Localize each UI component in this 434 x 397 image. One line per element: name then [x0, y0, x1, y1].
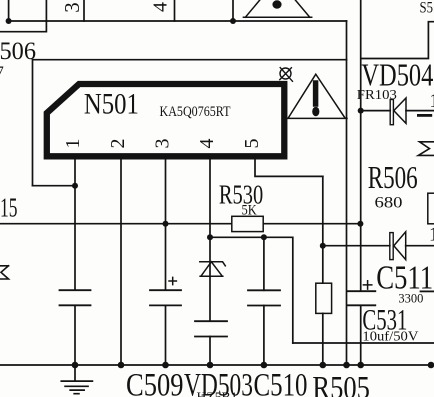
svg-text:680: 680 — [375, 195, 403, 212]
svg-text:3300: 3300 — [398, 292, 423, 306]
capacitor C511 plates — [347, 291, 375, 305]
svg-text:1: 1 — [429, 224, 434, 246]
zener diode VD503 bar — [200, 262, 226, 266]
svg-text:10uf/50V: 10uf/50V — [362, 330, 418, 345]
node junction bus pin2 — [118, 362, 125, 369]
wire thin feedback line above N501 — [33, 60, 347, 186]
exclamation dot — [312, 107, 319, 117]
wire pin5 L-path — [255, 156, 323, 176]
wire VD504 anode — [361, 110, 391, 112]
diode 2 triangle — [394, 232, 406, 260]
crossed circle symbol — [280, 68, 293, 82]
wire stub top-left — [8, 0, 10, 21]
node junction pin4 top wire — [230, 18, 236, 24]
sigma connector symbol left (cut) — [0, 266, 9, 279]
warning triangle by IC — [287, 74, 347, 118]
capacitor C510 plates — [248, 290, 280, 305]
svg-text:7: 7 — [0, 64, 4, 81]
svg-text:S5: S5 — [420, 0, 434, 16]
svg-text:KA5Q0765RT: KA5Q0765RT — [160, 104, 231, 120]
wire pin3 vertical — [165, 156, 167, 365]
wire to pin1 junction — [33, 185, 76, 187]
wire transformer pin box4 left — [174, 0, 176, 21]
wire branch exiting left — [0, 21, 46, 32]
wire transformer pin4 center — [232, 0, 234, 21]
node junction bus R505 — [320, 362, 327, 369]
wire horizontal y=237 — [210, 237, 293, 343]
node junction bus pin1 — [72, 362, 79, 369]
node junction top-left — [6, 18, 12, 24]
node junction pin3 — [163, 221, 169, 227]
diode VD504 triangle — [394, 98, 406, 123]
zener diode VD503 triangle — [200, 262, 223, 276]
resistor R506 (cut at right) — [428, 193, 434, 224]
svg-text:4: 4 — [150, 2, 172, 12]
rail vertical left — [346, 21, 348, 365]
svg-text:15: 15 — [0, 193, 18, 223]
warning triangle top (cut off at top) — [243, 0, 311, 17]
wire S5 connector path top right — [361, 22, 434, 59]
svg-text:2: 2 — [107, 139, 129, 149]
capacitor pin3 electrolytic plates — [150, 290, 181, 305]
resistor R505 — [316, 283, 332, 313]
wire transformer pin box3 right — [83, 0, 85, 21]
svg-text:1: 1 — [62, 139, 84, 149]
svg-text:5: 5 — [241, 139, 263, 149]
plus sign pin3 cap — [169, 277, 176, 284]
capacitor plate fragment right edge — [421, 290, 434, 292]
wire pin1 vertical — [74, 156, 76, 365]
wire top horizontal — [9, 20, 347, 22]
wire horizontal feedback line — [0, 223, 360, 225]
svg-text:3: 3 — [152, 139, 174, 149]
svg-text:FR103: FR103 — [357, 88, 397, 103]
svg-text:5K: 5K — [242, 203, 258, 219]
wire transformer pin box3 left — [45, 0, 47, 21]
svg-text:4: 4 — [196, 139, 218, 149]
resistor R530 — [232, 216, 263, 231]
ground bus — [0, 364, 434, 366]
svg-text:506: 506 — [0, 36, 36, 65]
svg-text:HZ5B1: HZ5B1 — [197, 389, 238, 397]
node junction pin4 — [207, 234, 213, 240]
svg-text:C510: C510 — [254, 368, 308, 397]
node junction R530 line end — [357, 221, 363, 227]
capacitor below zener plates — [195, 321, 227, 336]
node junction pin1 feedback — [72, 183, 78, 189]
svg-text:3: 3 — [60, 2, 84, 13]
node junction C510 top — [261, 234, 267, 240]
diode 2 cathode bar — [390, 233, 393, 260]
plus sign C511 — [363, 281, 371, 289]
diode VD504 cathode bar — [390, 100, 393, 125]
exclamation bar — [313, 83, 319, 104]
off-page marker dash — [418, 114, 430, 117]
IC N501 box — [47, 84, 284, 156]
wire C510 vertical — [263, 237, 265, 364]
node junction bus C510 — [261, 362, 268, 369]
node junction VD504 anode — [358, 108, 364, 114]
warning triangle top exclamation dot — [272, 0, 281, 8]
wire R505 column — [322, 176, 324, 365]
node junction R505 top — [320, 243, 326, 249]
svg-text:1: 1 — [429, 90, 434, 112]
wire diode 2 output — [406, 245, 434, 247]
ground symbol — [61, 365, 92, 394]
sigma connector symbol right — [418, 142, 434, 156]
wire pin2 vertical — [120, 156, 122, 365]
node junction bus right edge — [428, 362, 434, 369]
rail vertical right (gap at C511) — [360, 0, 362, 365]
wire to diode 2 — [323, 245, 390, 247]
node junction bus rail1 — [343, 362, 350, 369]
node junction bus pin4 — [207, 362, 214, 369]
capacitor C509 plates — [60, 290, 91, 305]
wire horizontal y=343 — [293, 342, 434, 344]
svg-text:C509: C509 — [126, 368, 184, 397]
wire VD504 output — [406, 110, 434, 112]
svg-text:N501: N501 — [84, 88, 139, 120]
node junction bus rail2 — [357, 362, 364, 369]
svg-text:R505: R505 — [312, 371, 370, 397]
node junction bus pin3 — [162, 362, 169, 369]
svg-text:R506: R506 — [368, 159, 418, 195]
wire pin4 vertical — [209, 156, 211, 365]
